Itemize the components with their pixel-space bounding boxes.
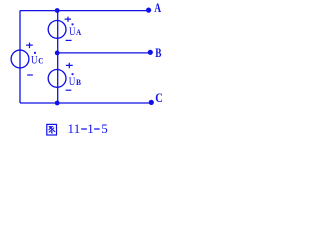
svg-text:5: 5 bbox=[101, 121, 108, 136]
svg-text:B: B bbox=[76, 78, 82, 87]
label UA bbox=[69, 23, 81, 38]
wire top horizontal to A bbox=[20, 10, 149, 12]
plus sign UC bbox=[26, 43, 33, 49]
svg-text:1: 1 bbox=[87, 121, 94, 136]
svg-text:U: U bbox=[69, 74, 76, 88]
wire B horizontal bbox=[58, 52, 151, 54]
terminal dot C bbox=[149, 100, 154, 105]
svg-text:C: C bbox=[38, 57, 43, 66]
source UC circle bbox=[11, 50, 29, 68]
plus sign UA bbox=[65, 17, 71, 22]
minus sign UC bbox=[27, 74, 33, 76]
svg-text:A: A bbox=[154, 0, 161, 15]
caption hyphens bbox=[81, 128, 100, 130]
minus sign UB bbox=[66, 89, 72, 91]
svg-text:U: U bbox=[31, 53, 38, 67]
caption text 11-1-5 bbox=[68, 121, 108, 136]
svg-text:C: C bbox=[155, 90, 163, 105]
svg-text:B: B bbox=[155, 45, 161, 60]
terminal dot A bbox=[146, 8, 151, 13]
minus sign UA bbox=[66, 39, 72, 41]
source UB circle bbox=[48, 70, 66, 88]
wire middle vertical bbox=[57, 11, 59, 103]
svg-text:A: A bbox=[76, 28, 81, 37]
wire left vertical bbox=[19, 11, 21, 103]
junction dot top bbox=[55, 8, 60, 13]
svg-text:1: 1 bbox=[74, 121, 81, 136]
wire bottom horizontal to C bbox=[20, 102, 151, 104]
label UB bbox=[69, 73, 82, 88]
svg-text:U: U bbox=[69, 24, 76, 38]
caption hanzi "tu" (figure) drawn as strokes bbox=[47, 124, 57, 135]
junction dot middle bbox=[55, 51, 60, 56]
source UA circle bbox=[48, 21, 66, 39]
plus sign UB bbox=[66, 63, 73, 69]
label UC bbox=[31, 52, 44, 67]
junction dot bottom bbox=[55, 101, 60, 106]
terminal dot B bbox=[148, 50, 153, 55]
